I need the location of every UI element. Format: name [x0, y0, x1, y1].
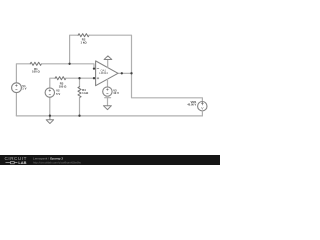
- VCC arrow: [104, 56, 112, 60]
- wire bottom rail: [16, 115, 202, 117]
- ground under V3: [103, 106, 111, 110]
- V3 bottom stem and tick: [105, 96, 111, 105]
- voltmeter VM1: [198, 102, 207, 111]
- node output pin: [121, 72, 123, 74]
- svg-text:1 kΩ: 1 kΩ: [81, 40, 88, 44]
- V2 minus: [49, 94, 51, 96]
- node output feedback junction: [130, 72, 132, 74]
- svg-text:LAB: LAB: [18, 160, 26, 165]
- resistor R1: [30, 62, 41, 65]
- wire V2 bottom stem: [49, 97, 51, 115]
- resistor R3: [55, 77, 66, 80]
- wire feedback right to output node and down to voltmeter: [89, 35, 202, 101]
- svg-text:100 Ω: 100 Ω: [59, 84, 67, 88]
- node inverting pin: [93, 67, 95, 69]
- node rail R4: [78, 115, 80, 117]
- svg-text:40.00 V: 40.00 V: [187, 103, 196, 107]
- svg-text:1 kΩ: 1 kΩ: [82, 91, 89, 95]
- V2 plus: [49, 89, 51, 91]
- op-amp U1 triangle: [96, 61, 118, 86]
- voltage source V2: [45, 88, 54, 97]
- V3 minus: [106, 93, 108, 95]
- plus minus marks of sources, opamp inputs: [15, 69, 203, 106]
- wire R4 bottom stub: [79, 98, 81, 116]
- wire op-amp output: [118, 72, 132, 74]
- svg-text:LM324: LM324: [99, 71, 108, 75]
- wire V1 bottom stem: [15, 93, 17, 116]
- svg-text:100 Ω: 100 Ω: [32, 70, 40, 74]
- watermark text: [33, 156, 82, 164]
- V1 plus: [15, 84, 17, 86]
- VM1 needle arrow: [201, 103, 203, 106]
- voltage source V3: [103, 87, 112, 96]
- op-amp minus input sign: [97, 68, 99, 70]
- op-amp power stem bottom to V3: [107, 79, 109, 87]
- CircuitLab logo: [5, 156, 27, 165]
- ground at bottom rail: [46, 116, 53, 124]
- resistor R2: [78, 34, 89, 37]
- svg-text:10 V: 10 V: [113, 91, 119, 95]
- wire V1 top to R1: [16, 64, 30, 83]
- op-amp plus input sign: [97, 77, 99, 79]
- wire R4 top stub: [79, 78, 81, 87]
- node R4 top: [78, 77, 80, 79]
- resistor R4: [78, 87, 81, 98]
- wire V2 top stem: [50, 78, 55, 88]
- op-amp power stem top: [107, 60, 109, 68]
- V1 minus: [15, 89, 17, 91]
- node rail ground: [49, 115, 51, 117]
- V3 plus: [106, 88, 108, 90]
- wire R3 to op-amp non-inverting input: [66, 77, 96, 79]
- wire R1 to op-amp inverting input: [42, 64, 96, 69]
- watermark bar: [0, 155, 220, 165]
- node non-inverting pin: [93, 77, 95, 79]
- VM1 bottom stem: [201, 111, 203, 116]
- component labels: [22, 38, 204, 111]
- voltage source V1: [12, 83, 22, 93]
- svg-text:http://circuitlab.com/c/cw8xan: http://circuitlab.com/c/cw8xanh5bn8w: [33, 160, 82, 164]
- svg-text:1 V: 1 V: [22, 87, 26, 91]
- svg-text:5 V: 5 V: [56, 92, 60, 96]
- wire feedback left branch: [70, 35, 79, 64]
- junction dots: [49, 63, 133, 117]
- node feedback tap: [68, 63, 70, 65]
